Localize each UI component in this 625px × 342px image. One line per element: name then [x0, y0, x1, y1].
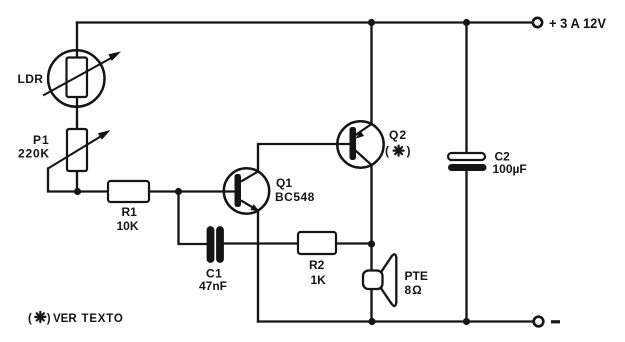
svg-text:TEXTO: TEXTO — [82, 313, 124, 325]
svg-text:VER: VER — [53, 313, 77, 325]
svg-text:(: ( — [28, 313, 32, 325]
svg-text:1K: 1K — [311, 273, 327, 287]
svg-text:): ) — [47, 313, 51, 325]
svg-text:PTE: PTE — [405, 269, 428, 283]
svg-text:(: ( — [385, 144, 389, 158]
svg-text:Q1: Q1 — [276, 176, 292, 190]
svg-text:47nF: 47nF — [199, 279, 227, 293]
svg-text:Q2: Q2 — [389, 128, 407, 142]
svg-text:+ 3 A 12V: + 3 A 12V — [549, 15, 607, 31]
svg-text:10K: 10K — [117, 219, 139, 233]
svg-text:220K: 220K — [18, 147, 50, 161]
svg-text:R1: R1 — [122, 205, 138, 219]
svg-text:BC548: BC548 — [275, 190, 315, 204]
svg-text:8Ω: 8Ω — [405, 283, 423, 297]
svg-text:LDR: LDR — [18, 72, 44, 86]
svg-text:R2: R2 — [309, 258, 325, 272]
svg-text:): ) — [407, 144, 411, 158]
svg-text:100µF: 100µF — [493, 162, 527, 176]
svg-text:P1: P1 — [33, 133, 50, 147]
